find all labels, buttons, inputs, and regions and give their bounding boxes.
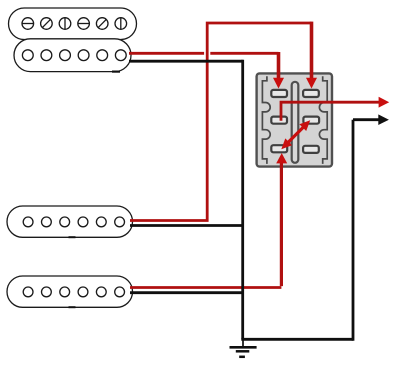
ground symbol bar 1 bbox=[230, 346, 257, 349]
P3 mounting tab bbox=[69, 306, 76, 308]
wire: humbucker hot (red) to terminal 1 bbox=[129, 52, 279, 55]
diagonal link arrow terminal 5 to terminal 4 shaft bbox=[287, 126, 305, 144]
bridge single-coil pickup P3 bbox=[7, 276, 133, 307]
wire: bridge pickup ground (black) bbox=[130, 291, 243, 294]
switch terminal 3 (mid-left) bbox=[271, 117, 287, 124]
wire: bottom ground run bbox=[241, 338, 353, 341]
arrow into terminal 5 from below bbox=[276, 153, 287, 163]
wire: hot output (red) from terminal 3 bbox=[281, 102, 379, 121]
switch S1 inner contour left bbox=[262, 76, 270, 164]
wire: middle pickup hot (red) to terminal 2 bbox=[130, 23, 312, 221]
wire: ground bus vertical bbox=[241, 60, 244, 340]
switch terminal 6 (bottom-right) bbox=[303, 146, 319, 153]
middle single-coil pickup P2 bbox=[7, 206, 133, 237]
wire: output ground riser bbox=[352, 120, 355, 341]
P3 poles bbox=[23, 287, 124, 297]
arrowhead ground output bbox=[378, 114, 389, 125]
ground symbol bar 3 bbox=[239, 356, 245, 359]
wire: bridge pickup hot (red) to terminal 5 bbox=[130, 286, 281, 289]
switch terminal 4 (mid-right) bbox=[303, 117, 319, 124]
switch S1 center slot bbox=[292, 82, 299, 163]
humbucker P1 screw poles bbox=[22, 18, 127, 30]
arrow into terminal 2 bbox=[306, 78, 317, 89]
ground symbol bar 2 bbox=[236, 350, 250, 353]
humbucker P1 mounting tab bbox=[112, 71, 120, 73]
arrow into terminal 1 bbox=[273, 78, 284, 89]
ground symbol stub bbox=[242, 339, 244, 347]
diagonal link arrowhead at terminal 4 bbox=[299, 120, 310, 131]
switch terminal 2 (top-right) bbox=[303, 90, 319, 97]
humbucker pickup P1: screw coil bbox=[9, 8, 137, 40]
humbucker P1 plain poles bbox=[22, 50, 126, 61]
arrowhead hot output bbox=[379, 97, 390, 108]
switch S1 inner contour right bbox=[319, 76, 327, 164]
switch terminal 1 (top-left) bbox=[271, 90, 287, 97]
humbucker pickup P1: plain coil bbox=[14, 39, 131, 72]
wire: middle pickup ground (black) bbox=[130, 224, 243, 227]
diagonal link arrowhead at terminal 5 bbox=[281, 138, 292, 149]
wire: humbucker ground (black) bbox=[129, 60, 243, 63]
switch terminal 5 (bottom-left) bbox=[271, 145, 287, 152]
P2 poles bbox=[23, 217, 124, 227]
wire: ground output lead bbox=[353, 118, 379, 121]
switch S1 body bbox=[257, 73, 332, 166]
P2 mounting tab bbox=[69, 236, 76, 238]
